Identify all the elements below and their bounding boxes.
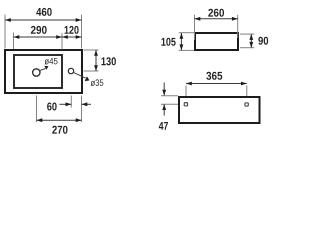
label ø35 [91, 79, 104, 86]
dimension line 120 [62, 36, 82, 38]
label 130 [101, 57, 115, 65]
mounting hole right [245, 103, 248, 106]
extension line top for 130 [84, 49, 99, 51]
extension line left for 365 [185, 86, 187, 97]
dimension line 105 [180, 33, 182, 50]
extension line below from tap hole (60) [70, 96, 72, 108]
extension line left for 260 [194, 15, 196, 40]
extension line below right edge (60/270) [81, 96, 83, 123]
dimension line 130 [95, 50, 97, 71]
leader line for ø45 [39, 69, 45, 71]
dimension 47 upper outside arrow (down) [163, 83, 165, 96]
label 290 [31, 26, 47, 34]
extension line right for 365 [246, 86, 248, 97]
back view rectangle [179, 97, 260, 123]
side view rectangle [195, 33, 238, 50]
label 460 [36, 8, 51, 16]
dimension line 460 [5, 19, 82, 21]
label 270 [52, 126, 67, 134]
extension lines left for 105 [179, 32, 194, 34]
dimension 47 lower outside arrow (up) [163, 104, 165, 115]
extension line bottom for 47 (hole centre) [161, 103, 178, 105]
extension line bottom for 130 [84, 70, 99, 72]
dimension line 290 [14, 36, 63, 38]
basin top view: outer outline 460x270 [5, 50, 82, 93]
label 260 [208, 9, 224, 17]
mounting hole left [184, 103, 187, 106]
dimension line 270 [37, 119, 82, 121]
label 365 [206, 72, 222, 80]
extension line top for 47 [161, 95, 178, 97]
basin top view: inner bowl outline [14, 55, 62, 88]
dimension line 260 [195, 18, 238, 20]
dimension 60 line and inside arrow [60, 103, 72, 105]
extension line shared 290/120 [61, 33, 63, 50]
extension line right shared 460/120 [81, 15, 83, 49]
extension line at inner-left for 290 [13, 33, 15, 50]
leader arrowhead ø45 [44, 66, 48, 70]
extension lines right for 90 [240, 33, 254, 35]
extension line left of 460 [4, 15, 6, 49]
dimension line 90 [250, 34, 252, 48]
tap hole circle ø35 [68, 68, 73, 73]
extension line right for 260 [237, 15, 239, 38]
label 105 [161, 38, 175, 46]
dimension line 365 [186, 83, 247, 85]
label 47 [159, 122, 168, 130]
label 60 [47, 103, 56, 111]
label 90 [258, 37, 268, 45]
drain hole circle ø45 [33, 69, 40, 76]
leader line for ø35 [73, 72, 86, 78]
label 120 [65, 26, 79, 34]
leader arrowhead ø35 [85, 76, 90, 81]
label ø45 [45, 58, 58, 65]
dimension 60 outside arrow at right edge [82, 103, 92, 105]
extension line below from drain center (270) [36, 96, 38, 123]
